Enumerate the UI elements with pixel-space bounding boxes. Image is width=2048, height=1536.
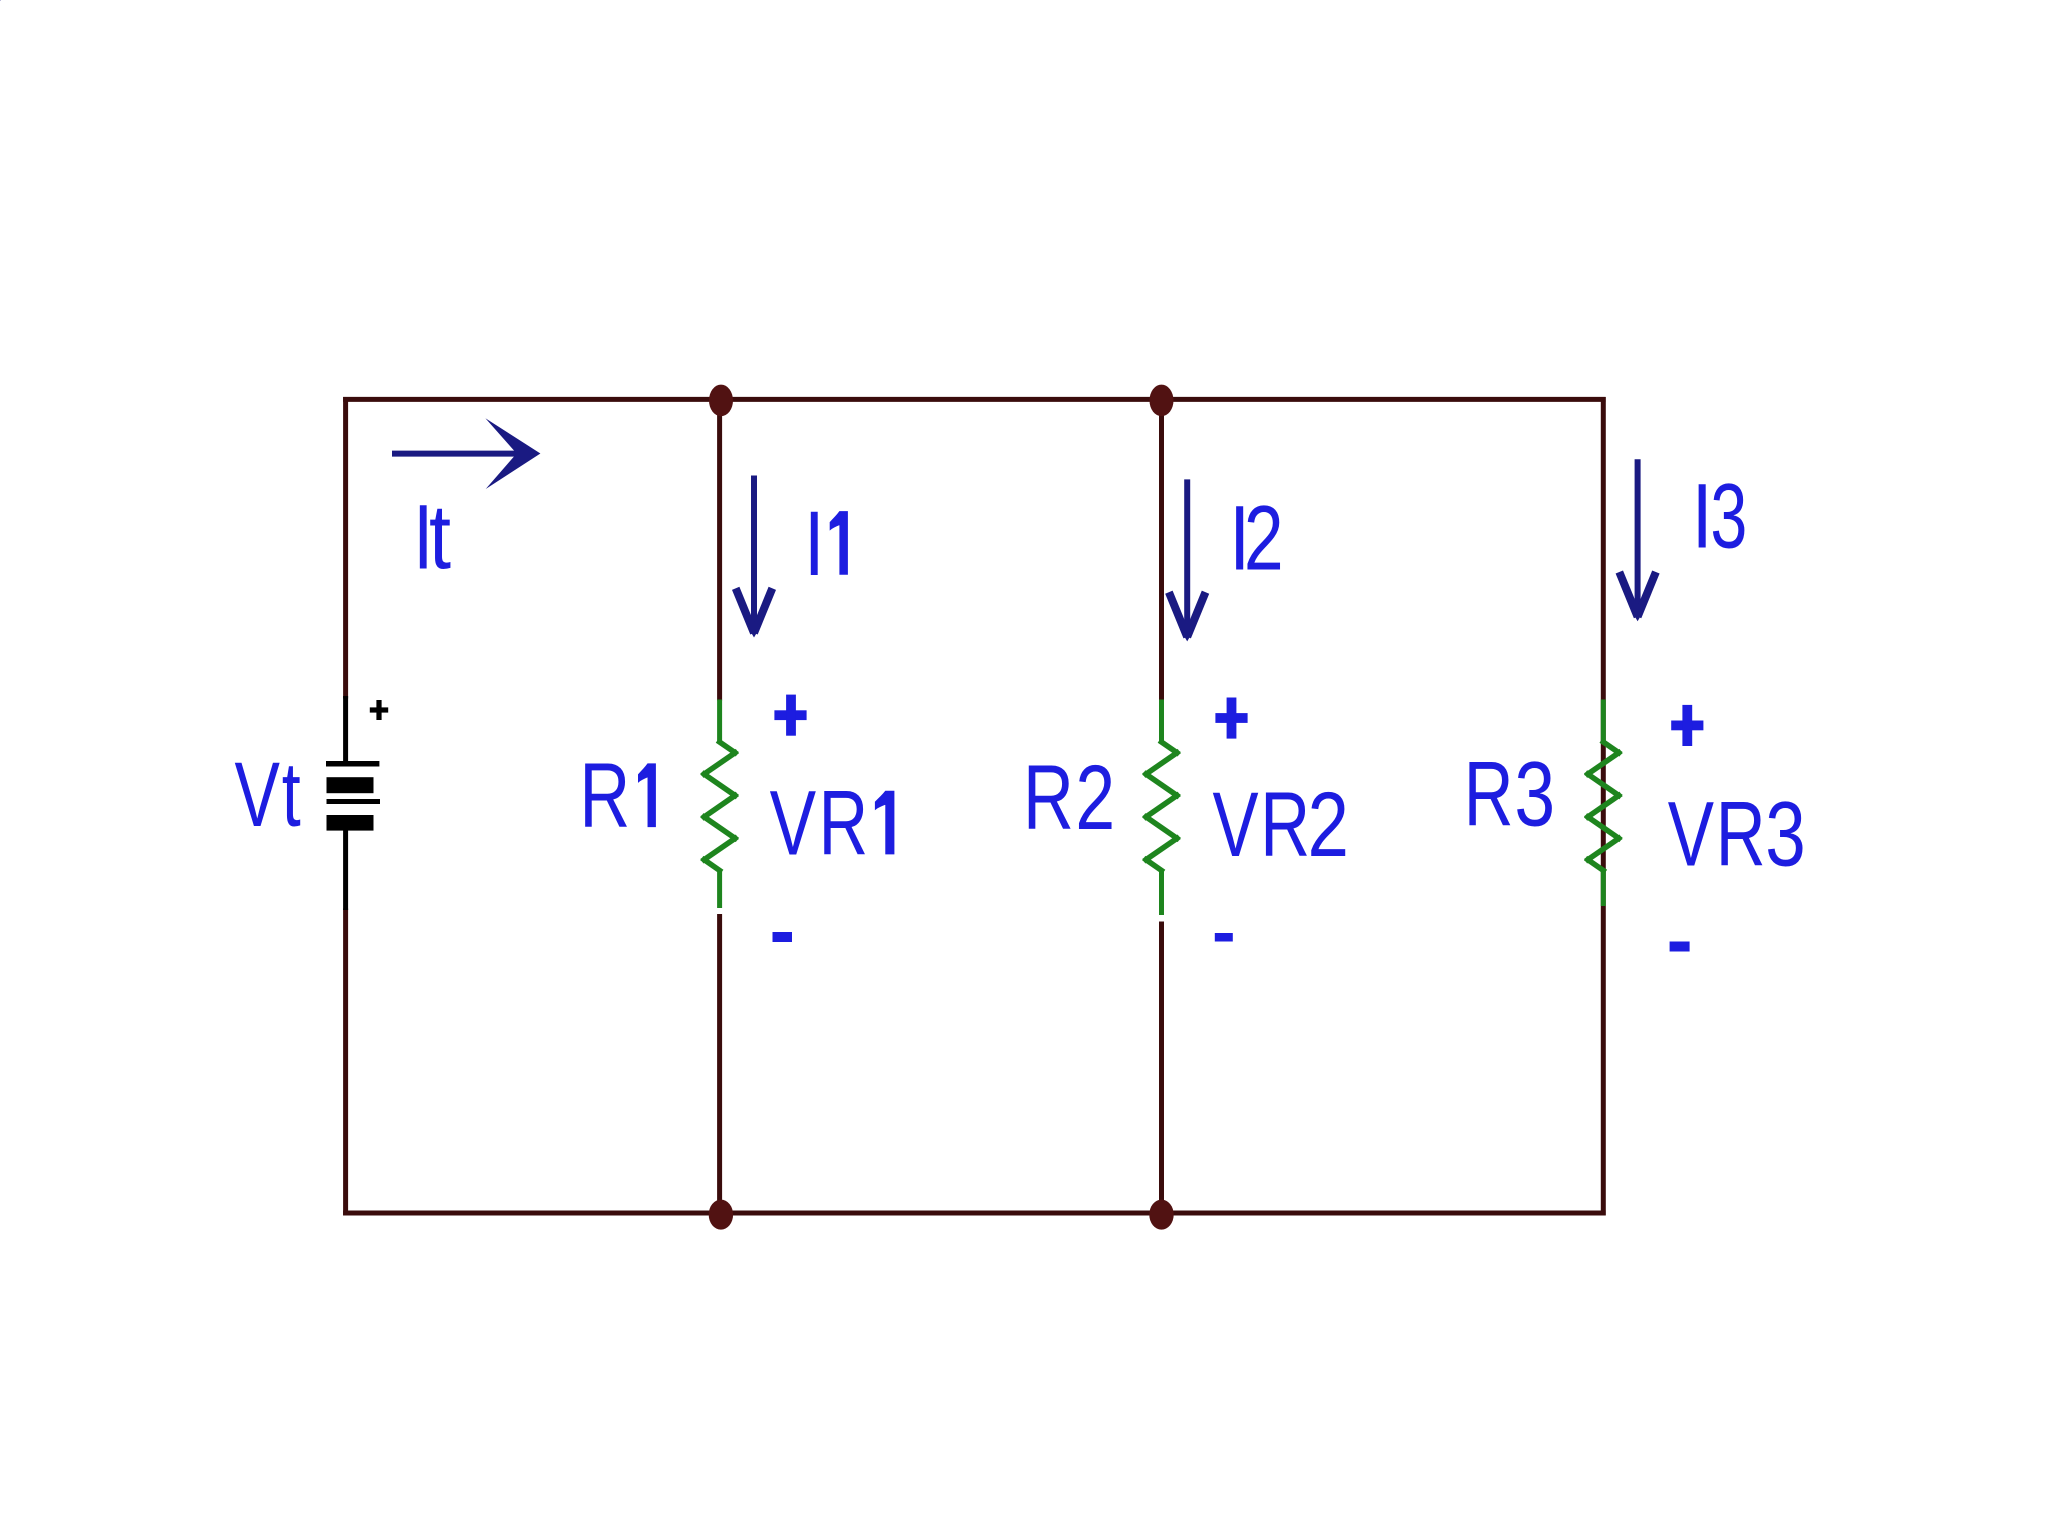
svg-text:I: I bbox=[804, 492, 825, 595]
svg-text:R: R bbox=[579, 745, 630, 847]
svg-text:R: R bbox=[1464, 743, 1514, 846]
svg-text:2: 2 bbox=[1244, 487, 1284, 590]
svg-text:2: 2 bbox=[1075, 746, 1115, 849]
svg-text:R: R bbox=[1716, 783, 1766, 886]
svg-text:V: V bbox=[235, 744, 280, 846]
svg-text:V: V bbox=[1213, 773, 1259, 876]
svg-text:R: R bbox=[819, 773, 869, 875]
svg-text:R: R bbox=[1260, 773, 1310, 876]
svg-text:V: V bbox=[770, 772, 817, 875]
svg-text:t: t bbox=[429, 486, 451, 589]
svg-text:2: 2 bbox=[1308, 772, 1349, 875]
svg-text:t: t bbox=[282, 744, 301, 846]
svg-text:R: R bbox=[1023, 747, 1074, 849]
svg-text:V: V bbox=[1668, 783, 1714, 886]
svg-text:3: 3 bbox=[1765, 782, 1805, 885]
svg-text:I: I bbox=[1692, 465, 1713, 568]
svg-text:3: 3 bbox=[1710, 465, 1747, 568]
svg-text:3: 3 bbox=[1514, 743, 1555, 846]
